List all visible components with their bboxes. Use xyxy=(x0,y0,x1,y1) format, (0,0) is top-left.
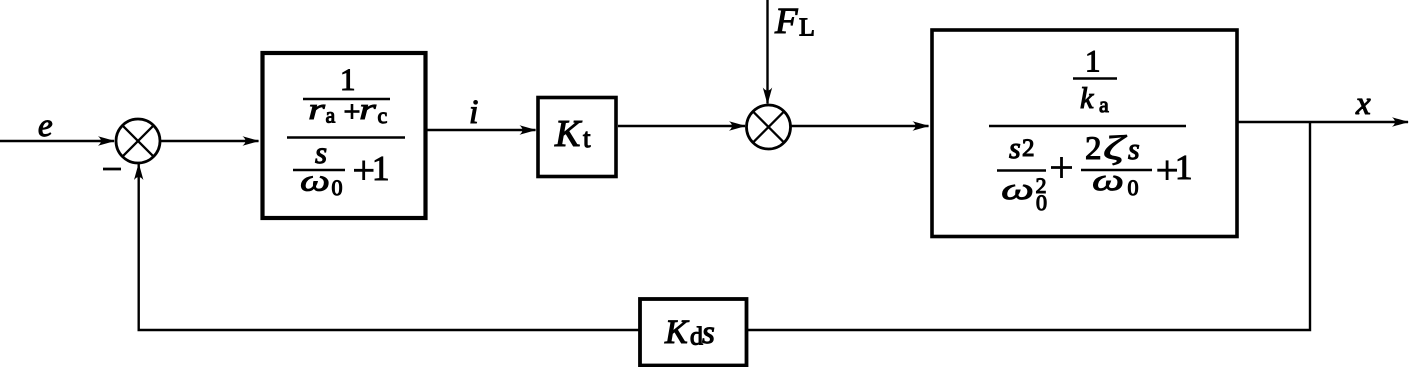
node x label xyxy=(1356,99,1371,114)
block G2: (1/ka)/(s^2/w0^2 + 2*zeta*s/w0 + 1) xyxy=(932,30,1237,237)
wire: input e into summing junction S1 xyxy=(0,140,114,142)
summing junction S2 (circle with X cross) xyxy=(747,105,791,149)
summing junction S1 (circle with X cross) xyxy=(116,119,160,163)
wire: S2 to block G2 xyxy=(791,125,929,127)
wire: S1 to block G1 xyxy=(160,140,259,142)
wire: block Kt to summing junction S2 xyxy=(618,125,745,127)
block G1: [1/(ra+rc)] / (s/w0+1) xyxy=(263,53,426,218)
wire: disturbance FL input down into S2 xyxy=(766,0,768,104)
node e label xyxy=(39,121,52,137)
node i label xyxy=(471,101,478,124)
wire: feedback bottom-left segment and up into S1 xyxy=(139,164,639,330)
wire: block G2 output to x xyxy=(1236,121,1408,123)
wire: branch node down and feedback bottom-right segment xyxy=(748,122,1310,330)
node FL label xyxy=(775,9,798,33)
wire: block G1 to block Kt xyxy=(424,129,536,131)
minus sign at S1 feedback input xyxy=(103,168,121,171)
block Kt xyxy=(538,98,616,177)
block H: Kd s xyxy=(640,299,747,366)
